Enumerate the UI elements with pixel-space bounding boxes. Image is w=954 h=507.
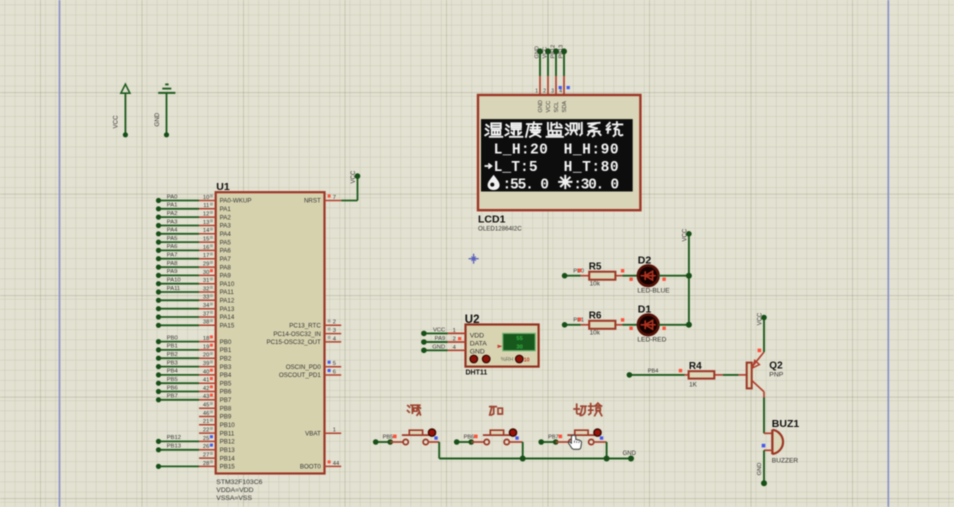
svg-text:1: 1	[453, 328, 456, 334]
svg-text:37: 37	[203, 311, 209, 317]
svg-text:PB0: PB0	[167, 335, 178, 341]
marker R6 right	[621, 318, 624, 321]
svg-text:3: 3	[333, 328, 336, 334]
ground terminal GND (BUZ1)	[757, 463, 767, 487]
svg-text:PA12: PA12	[220, 298, 235, 305]
svg-text:25: 25	[203, 436, 209, 442]
marker LCD pin3	[559, 86, 562, 89]
svg-text:Q2: Q2	[769, 360, 783, 371]
svg-text:D1: D1	[638, 304, 652, 316]
svg-text:38: 38	[203, 320, 209, 326]
svg-text:31: 31	[203, 278, 209, 284]
svg-text::30. 0: :30. 0	[573, 177, 619, 193]
svg-text:PNP: PNP	[769, 372, 783, 379]
svg-text:PB13: PB13	[220, 447, 236, 454]
svg-text:PB5: PB5	[383, 435, 394, 441]
svg-text:14: 14	[203, 228, 210, 234]
svg-text:PA8: PA8	[167, 261, 178, 267]
svg-text:PB9: PB9	[220, 414, 232, 421]
svg-text:27: 27	[203, 453, 209, 459]
svg-text:PA2: PA2	[220, 214, 232, 221]
svg-text:PB7: PB7	[548, 435, 559, 441]
svg-text:GND: GND	[470, 349, 485, 356]
svg-text:11: 11	[203, 203, 209, 209]
resistor R4	[685, 361, 723, 389]
transistor Q2 PNP	[739, 352, 784, 398]
U1 pin 45 PB8	[156, 45, 799, 486]
svg-text:PB3: PB3	[220, 364, 232, 371]
svg-text:45: 45	[203, 403, 209, 409]
button label PB6	[490, 407, 503, 415]
svg-text:42: 42	[203, 386, 209, 392]
svg-text:20: 20	[203, 353, 209, 359]
power terminal VCC (Q2)	[758, 312, 767, 325]
U1 pin 26 PB13	[156, 45, 799, 486]
wire LCD pin 1 GND to GND	[535, 46, 544, 95]
svg-text:PA7: PA7	[167, 253, 178, 259]
LCD text L_H:20 H_H:90	[494, 143, 619, 159]
svg-text:H_H:90: H_H:90	[564, 143, 619, 159]
resistor R5	[581, 261, 623, 287]
svg-text:7: 7	[333, 195, 336, 201]
svg-text:30: 30	[516, 344, 522, 350]
svg-text:GND: GND	[154, 112, 161, 126]
U1 pin 1 VBAT	[305, 428, 341, 438]
wire button net PB7	[538, 435, 562, 445]
svg-text:46: 46	[203, 411, 209, 417]
U2 button 2	[482, 355, 490, 363]
wire R6 to D1	[623, 324, 638, 326]
U1 pin 41 PB5	[156, 45, 799, 486]
wire BUZ1 to GND	[764, 450, 772, 483]
svg-text:VCC: VCC	[543, 47, 549, 59]
svg-text:1: 1	[333, 428, 336, 434]
svg-text:VCC: VCC	[113, 115, 120, 129]
U1 pin 11 PA1	[156, 45, 799, 486]
svg-text:16: 16	[203, 245, 209, 251]
svg-text:PB7: PB7	[167, 394, 178, 400]
U1 pin 40 PB4	[156, 45, 799, 486]
LCD screen	[481, 119, 633, 191]
svg-text:17: 17	[203, 253, 209, 259]
svg-text:PA1: PA1	[167, 203, 178, 209]
U2 indicator LED	[516, 355, 524, 363]
svg-text:BOOT0: BOOT0	[300, 464, 322, 471]
marker R5 right	[621, 269, 624, 272]
svg-text:PB12: PB12	[167, 435, 181, 441]
sensor U2 DHT11 body	[465, 314, 539, 377]
svg-text:VDDA=VDD: VDDA=VDD	[216, 487, 253, 494]
U1 pin 32 PA11	[156, 45, 799, 486]
wire R4 to Q2 base	[723, 374, 739, 376]
U1 pin 7 NRST	[304, 195, 341, 205]
svg-text:PB2: PB2	[220, 355, 232, 362]
svg-text:PA8: PA8	[220, 264, 232, 271]
svg-text:26: 26	[203, 444, 209, 450]
wire PB4 to R4	[627, 369, 685, 378]
svg-text:PA15: PA15	[220, 323, 235, 330]
svg-text:21: 21	[203, 419, 209, 425]
U1 pin 43 PB7	[156, 45, 799, 486]
wire button net PB6	[454, 435, 478, 445]
svg-text:VCC: VCC	[546, 101, 552, 113]
svg-text:4: 4	[559, 89, 562, 95]
svg-text:39: 39	[203, 361, 209, 367]
svg-text:GND: GND	[623, 451, 637, 457]
U1 pin 39 PB3	[156, 45, 799, 486]
svg-text:PA11: PA11	[220, 289, 235, 296]
U1 pin 3 PC14-OSC32_IN	[273, 328, 341, 338]
U2 green LCD readout	[503, 333, 535, 350]
U1 pin 33 PA12	[156, 45, 799, 486]
wire U2 pin 4 to GND	[421, 344, 465, 353]
U1 pin 20 PB2	[156, 45, 799, 486]
svg-text:R6: R6	[589, 310, 602, 321]
svg-text:2: 2	[333, 320, 336, 326]
svg-text:BUZZER: BUZZER	[772, 457, 799, 464]
svg-text:NRST: NRST	[304, 198, 321, 205]
op: U1 STM32 microcontroller body	[216, 181, 325, 502]
U1 pin 46 PB9	[156, 45, 799, 486]
U2 button 1	[470, 355, 478, 363]
svg-text:PB1: PB1	[220, 347, 232, 354]
sheet border left	[59, 0, 61, 507]
U1 pin 10 PA0-WKUP	[156, 45, 799, 486]
svg-text:DHT11: DHT11	[466, 370, 488, 377]
svg-text:5: 5	[333, 361, 336, 367]
wire VCC rail for LEDs	[686, 234, 692, 328]
wire Q2 collector to BUZ1	[764, 398, 772, 434]
svg-text:10: 10	[524, 357, 530, 363]
svg-text:PA11: PA11	[167, 286, 180, 292]
wire R5 to D2	[623, 275, 638, 277]
svg-text:PA5: PA5	[167, 236, 178, 242]
svg-text:GND: GND	[535, 46, 541, 58]
marker PB4 net	[679, 369, 682, 372]
marker button PB5	[434, 436, 437, 439]
U1 pin 30 PA9	[156, 45, 799, 486]
svg-text:U2: U2	[465, 314, 480, 326]
svg-text:PC15-OSC32_OUT: PC15-OSC32_OUT	[266, 339, 321, 346]
U1 pin 15 PA5	[156, 45, 799, 486]
U1 pin 14 PA4	[156, 45, 799, 486]
svg-text:29: 29	[203, 262, 209, 268]
svg-text:PB6: PB6	[167, 385, 178, 391]
svg-text:3: 3	[551, 89, 554, 95]
svg-text:PB0: PB0	[220, 339, 232, 346]
svg-text:PB5: PB5	[220, 380, 232, 387]
U1 pin 22 PB11	[156, 45, 799, 486]
wire PB1 to R6	[562, 318, 584, 328]
svg-text:PA4: PA4	[167, 228, 178, 234]
wire button ground rail	[439, 456, 631, 462]
svg-text:PB10: PB10	[220, 422, 236, 429]
svg-text:12: 12	[203, 212, 209, 218]
LCD text humidity / temperature values	[488, 175, 620, 194]
svg-text:PB4: PB4	[167, 369, 179, 375]
svg-text:PB6: PB6	[464, 435, 475, 441]
svg-text:PA9: PA9	[167, 269, 178, 275]
svg-text:VCC: VCC	[682, 228, 688, 241]
push button PB7	[556, 429, 607, 445]
U1 pin 5 OSCIN_PD0	[286, 361, 341, 371]
U1 pin 37 PA14	[156, 45, 799, 486]
svg-text:SCL: SCL	[554, 102, 560, 113]
svg-text:1: 1	[535, 89, 538, 95]
U1 pin 16 PA6	[156, 45, 799, 486]
svg-text:10k: 10k	[590, 330, 601, 337]
svg-text:PA3: PA3	[167, 219, 178, 225]
svg-text:PB8: PB8	[220, 405, 232, 412]
svg-text:PA14: PA14	[220, 314, 235, 321]
svg-text:44: 44	[333, 461, 340, 467]
svg-text:PA6: PA6	[220, 248, 232, 255]
wire LCD pin 4 SDA to PB13	[559, 45, 568, 95]
svg-text:VDD: VDD	[470, 332, 484, 339]
svg-text:15: 15	[203, 237, 209, 243]
svg-text:PA5: PA5	[220, 239, 232, 246]
ground terminal GND (buttons)	[623, 451, 637, 461]
power terminal VCC (NRST)	[351, 170, 360, 183]
svg-text:DATA: DATA	[470, 340, 488, 347]
svg-text:PB7: PB7	[220, 397, 232, 404]
ground terminal GND	[154, 84, 176, 137]
svg-text:D2: D2	[638, 255, 652, 267]
svg-text:55: 55	[516, 336, 523, 342]
svg-text:28: 28	[203, 461, 209, 467]
marker Q2 emitter	[758, 349, 762, 353]
svg-text:LED-RED: LED-RED	[637, 337, 666, 344]
svg-text:VBAT: VBAT	[305, 431, 321, 438]
U1 pin 34 PA13	[156, 45, 799, 486]
svg-text:PA1: PA1	[220, 206, 232, 213]
button label PB5	[408, 405, 421, 415]
wire LCD pin 2 VCC to VCC	[543, 47, 552, 95]
LCD text L_T:5 H_T:80	[485, 160, 619, 176]
marker D1 right	[662, 327, 665, 330]
svg-text:PA6: PA6	[167, 244, 178, 250]
wire PB0 to R5	[562, 269, 584, 279]
push button PB6	[471, 429, 523, 445]
U1 pin 42 PB6	[156, 45, 799, 486]
sheet border right	[887, 0, 889, 507]
svg-text:19: 19	[203, 344, 209, 350]
svg-text:10k: 10k	[590, 281, 601, 288]
wire button PB6 down	[522, 442, 524, 459]
svg-text:VCC: VCC	[351, 170, 357, 183]
svg-text:PC14-OSC32_IN: PC14-OSC32_IN	[273, 331, 320, 338]
svg-text:43: 43	[203, 394, 209, 400]
display LCD1 OLED body	[478, 95, 640, 233]
svg-text:PC13_RTC: PC13_RTC	[289, 323, 321, 330]
U1 pin 38 PA15	[156, 45, 799, 486]
U1 pin 17 PA7	[156, 45, 799, 486]
marker D1 left	[629, 327, 632, 330]
LCD title text row	[485, 122, 622, 137]
svg-text:33: 33	[203, 295, 209, 301]
mouse cursor	[569, 435, 582, 449]
wire button PB5 down	[438, 442, 440, 459]
svg-text:32: 32	[203, 286, 209, 292]
svg-text:GND: GND	[432, 344, 445, 350]
svg-text:VCC: VCC	[758, 312, 764, 325]
svg-text:PA7: PA7	[220, 256, 232, 263]
U1 pin 13 PA3	[156, 45, 799, 486]
svg-text:VSSA=VSS: VSSA=VSS	[216, 495, 252, 502]
power terminal VCC	[113, 84, 130, 137]
svg-text:PA10: PA10	[167, 278, 181, 284]
svg-text:L_H:20: L_H:20	[494, 143, 548, 159]
svg-text:30: 30	[203, 270, 209, 276]
svg-text:PA13: PA13	[220, 306, 235, 313]
svg-text:PA9: PA9	[220, 273, 232, 280]
LED D1	[637, 304, 666, 344]
svg-text:40: 40	[203, 369, 209, 375]
svg-text:34: 34	[203, 303, 210, 309]
U1 pin 4 PC15-OSC32_OUT	[266, 336, 341, 346]
marker D2 right	[662, 278, 665, 281]
svg-text:OSCIN_PD0: OSCIN_PD0	[286, 364, 322, 371]
wire button net PB5	[373, 435, 397, 445]
svg-text:PB13: PB13	[167, 444, 181, 450]
U1 pin 31 PA10	[156, 45, 799, 486]
U1 pin 25 PB12	[156, 45, 799, 486]
svg-text:PB12: PB12	[551, 45, 557, 59]
svg-text:PB6: PB6	[220, 389, 232, 396]
svg-text:H_T:80: H_T:80	[564, 160, 619, 176]
U2 red indicator arrow	[497, 345, 500, 347]
svg-text:LCD1: LCD1	[478, 214, 506, 226]
svg-text:GND: GND	[538, 100, 544, 112]
svg-text:10: 10	[203, 195, 209, 201]
wire U2 pin 1 to VCC	[421, 327, 465, 336]
button label PB7	[574, 403, 602, 415]
svg-text:PA4: PA4	[220, 231, 232, 238]
U1 pin 12 PA2	[156, 45, 799, 486]
svg-text:2: 2	[453, 337, 456, 343]
wire NRST to VCC	[341, 176, 357, 200]
marker D2 left	[629, 278, 632, 281]
marker LCD pin4	[567, 86, 570, 89]
svg-text:PB13: PB13	[559, 45, 565, 59]
svg-text:PB11: PB11	[220, 430, 235, 437]
svg-text:VCC: VCC	[433, 327, 445, 333]
svg-text:R4: R4	[689, 361, 702, 372]
svg-text:PB4: PB4	[220, 372, 232, 379]
svg-text:22: 22	[203, 428, 209, 434]
svg-text:%RH: %RH	[501, 357, 514, 363]
svg-text:PA2: PA2	[167, 211, 178, 217]
wire button PB7 down	[606, 442, 608, 459]
power terminal VCC (LED rail)	[682, 228, 691, 241]
svg-text:R5: R5	[589, 261, 602, 272]
svg-text:BUZ1: BUZ1	[772, 418, 800, 430]
svg-text:PB3: PB3	[167, 360, 178, 366]
svg-text:U1: U1	[216, 181, 230, 193]
U1 pin 2 PC13_RTC	[289, 319, 341, 329]
svg-text:PA10: PA10	[220, 281, 235, 288]
marker button PB6	[515, 436, 518, 439]
push button PB5	[390, 429, 439, 445]
marker button PB7	[600, 436, 603, 439]
svg-text:GND: GND	[757, 463, 763, 476]
LED D2	[637, 255, 670, 295]
svg-text:PB5: PB5	[167, 377, 178, 383]
wire D2 to VCC rail	[659, 275, 689, 277]
svg-text:SDA: SDA	[562, 101, 568, 113]
svg-text:13: 13	[203, 220, 209, 226]
svg-text:L_T:5: L_T:5	[494, 160, 538, 176]
U1 pin 21 PB10	[156, 45, 799, 486]
svg-text:PA0: PA0	[167, 194, 178, 200]
U1 pin 27 PB14	[156, 45, 799, 486]
svg-text:PA9: PA9	[435, 336, 446, 342]
wire U2 pin 2 to PA9	[421, 336, 465, 345]
origin marker	[469, 254, 479, 264]
svg-text:OLED12864I2C: OLED12864I2C	[478, 226, 522, 233]
U1 pin 28 PB15	[156, 45, 799, 486]
U1 pin 18 PB0	[156, 45, 799, 486]
svg-text:PA0-WKUP: PA0-WKUP	[220, 198, 252, 205]
svg-text:41: 41	[203, 378, 209, 384]
svg-text:PB2: PB2	[167, 352, 178, 358]
U1 pin 44 BOOT0	[300, 460, 341, 470]
U1 pin 19 PB1	[156, 45, 799, 486]
svg-text:OSCOUT_PD1: OSCOUT_PD1	[279, 372, 322, 379]
svg-text:PA3: PA3	[220, 223, 232, 230]
svg-text:PB12: PB12	[220, 439, 236, 446]
svg-text:6: 6	[333, 369, 336, 375]
svg-text:18: 18	[203, 336, 209, 342]
svg-text:PB1: PB1	[167, 344, 178, 350]
svg-text:STM32F103C6: STM32F103C6	[216, 479, 262, 486]
U1 pin 29 PA8	[156, 45, 799, 486]
buzzer BUZ1	[772, 418, 800, 464]
U1 pin 6 OSCOUT_PD1	[279, 369, 341, 379]
resistor R6	[581, 310, 623, 336]
marker BUZ1 pin	[762, 444, 766, 448]
wire Q2 emitter to VCC	[763, 318, 765, 353]
svg-text:PB15: PB15	[220, 464, 236, 471]
svg-text:1K: 1K	[689, 381, 698, 388]
wire LCD pin 3 SCL to PB12	[551, 45, 560, 95]
svg-text:2: 2	[543, 89, 546, 95]
svg-text:PB14: PB14	[220, 455, 236, 462]
svg-text:LED-BLUE: LED-BLUE	[637, 288, 670, 295]
svg-text::55. 0: :55. 0	[503, 177, 550, 193]
wire D1 to VCC rail	[659, 324, 689, 326]
svg-text:PB4: PB4	[648, 369, 659, 375]
